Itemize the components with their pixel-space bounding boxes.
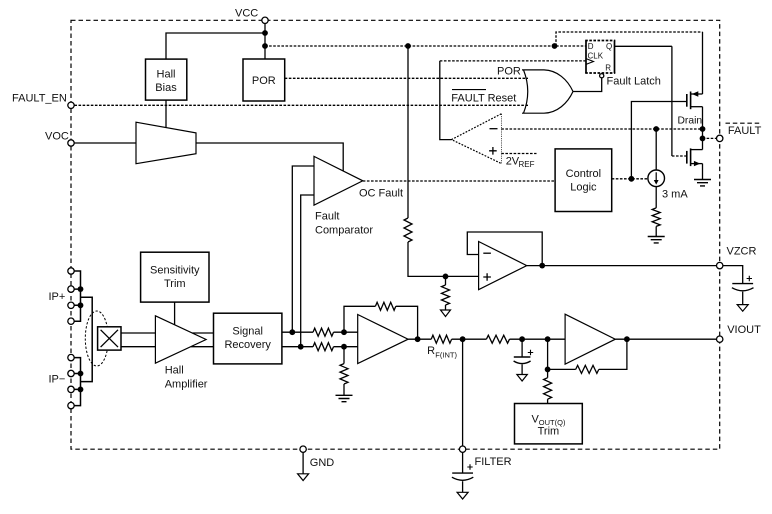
node gain stage output: [415, 336, 421, 342]
svg-text:OC Fault: OC Fault: [359, 188, 403, 200]
svg-text:Bias: Bias: [155, 82, 177, 94]
svg-text:Hall: Hall: [157, 69, 176, 81]
node buffer output: [624, 336, 630, 342]
pin FAULT: [717, 123, 762, 141]
wire Hall Bias to VOC buffer top: [165, 100, 167, 128]
svg-text:3 mA: 3 mA: [662, 189, 688, 201]
Hall element X: [98, 327, 121, 350]
svg-text:Recovery: Recovery: [224, 339, 271, 351]
comparator disable (2VREF): [452, 114, 502, 164]
block Control Logic: [555, 149, 612, 212]
resistor to VOUT(Q) trim: [544, 369, 552, 403]
pin VCC: [235, 7, 268, 23]
ground arrow below FILTER cap: [457, 492, 468, 499]
node VCC-HallBias junction: [262, 30, 268, 36]
svg-text:VCC: VCC: [235, 7, 258, 19]
wire POR output to OR gate (dashed): [285, 77, 528, 79]
ground arrow below internal cap: [517, 375, 527, 382]
pin GND: [300, 446, 334, 469]
svg-text:FAULT: FAULT: [728, 125, 762, 137]
ground arrow below VZCR cap: [737, 305, 748, 312]
svg-text:Logic: Logic: [570, 182, 597, 194]
wire 2VREF stub: [501, 153, 536, 155]
svg-text:FAULT Reset: FAULT Reset: [451, 93, 516, 105]
svg-text:REF: REF: [519, 160, 535, 169]
capacitor internal filter: [514, 339, 534, 374]
wire to FILTER pin: [462, 339, 464, 446]
svg-text:R: R: [427, 345, 435, 357]
wire Hall element outputs: [121, 333, 155, 347]
wire feedback with resistor: [344, 302, 418, 339]
pin IP+ group: [49, 268, 75, 325]
wire VOC buffer output to fault comparator: [196, 143, 343, 172]
wire VZCR output to pin: [527, 265, 717, 267]
label 2VREF: [506, 156, 535, 170]
svg-text:VOC: VOC: [45, 131, 69, 143]
wire Sensitivity Trim to Hall amp: [174, 302, 176, 325]
node feedback-trim junction: [545, 367, 551, 373]
svg-text:Trim: Trim: [164, 278, 186, 290]
svg-text:Amplifier: Amplifier: [165, 378, 208, 390]
node VZCR output junction: [539, 263, 545, 269]
amplifier VOC buffer (trapezoid): [136, 122, 196, 164]
pin VOC: [45, 131, 74, 147]
node control-gate junction: [629, 176, 635, 182]
node FAULT output junction: [700, 136, 706, 142]
wire VCC to PMOS drain: [556, 32, 703, 46]
wire latch Q output (dashed): [615, 45, 672, 47]
current source 3 mA: [648, 129, 688, 201]
node filter tap: [460, 336, 466, 342]
wire CLK line (dashed): [440, 60, 586, 62]
pin FILTER: [459, 446, 511, 468]
transistor Q2 NMOS: [687, 148, 703, 166]
node current-sink junction: [653, 126, 659, 132]
pin FAULT_EN: [12, 93, 74, 109]
wire IP- bus: [74, 358, 83, 406]
op-amp VZCR buffer: [479, 242, 527, 290]
wire FAULT_EN to OR gate (dashed): [74, 104, 528, 106]
wire buffer output to VIOUT: [615, 338, 716, 340]
transistor Q1 PMOS: [678, 91, 703, 126]
svg-text:Fault Latch: Fault Latch: [607, 75, 661, 87]
block VOUT(Q) Trim: [515, 404, 583, 444]
svg-text:Trim: Trim: [538, 426, 560, 438]
svg-text:R: R: [605, 64, 611, 73]
resistor divider lower: [442, 276, 450, 310]
resistor RF(INT): [408, 335, 486, 359]
ground arrow below GND pin: [298, 474, 309, 481]
wire IP+ bus: [74, 271, 83, 321]
wire VCC stub to POR: [264, 24, 266, 59]
wire PMOS source to NMOS drain: [702, 107, 704, 150]
block Hall Bias: [146, 59, 187, 100]
wire FAULT output: [703, 137, 717, 139]
svg-text:IP−: IP−: [49, 374, 66, 386]
block Sensitivity Trim: [141, 252, 209, 302]
IC package boundary: [71, 20, 720, 449]
wire VCC rail (dashed): [265, 45, 586, 47]
wire comparator minus to drain node (dashed): [501, 128, 702, 130]
node VCC-drain-branch junction: [552, 43, 558, 49]
block Signal Recovery: [214, 313, 282, 364]
svg-text:Fault: Fault: [315, 210, 339, 222]
ground below current source resistor: [648, 237, 665, 243]
pin VIOUT: [717, 324, 762, 342]
svg-text:POR: POR: [252, 75, 276, 87]
svg-text:GND: GND: [310, 457, 335, 469]
wire signal path A with resistor: [282, 328, 358, 336]
resistor to ground on plus input: [340, 347, 348, 396]
wire comparator output to latch CLK: [440, 61, 452, 140]
node cap tap: [519, 336, 525, 342]
pin VZCR: [717, 246, 757, 269]
wire NMOS source to ground: [702, 164, 704, 180]
node latch R bubble: [600, 74, 604, 78]
ground below NMOS: [694, 180, 711, 186]
svg-text:CLK: CLK: [588, 51, 604, 60]
svg-text:VIOUT: VIOUT: [727, 324, 761, 336]
svg-text:Drain: Drain: [678, 116, 703, 127]
svg-text:POR: POR: [497, 66, 521, 78]
svg-text:D: D: [588, 42, 594, 51]
resistor buffer feedback: [548, 339, 627, 373]
ground arrow below divider: [441, 310, 451, 317]
capacitor VZCR bypass: [732, 276, 754, 305]
wire primary conductor loop: [81, 297, 93, 381]
node VCC-pullup junction: [405, 43, 411, 49]
wire VZCR external cap lead: [723, 266, 743, 284]
svg-text:Signal: Signal: [232, 326, 263, 338]
wire Hall Bias VCC feed: [166, 33, 265, 59]
flux coupling ellipse: [85, 311, 108, 366]
comparator Fault Comparator: [314, 156, 403, 236]
svg-text:FAULT_EN: FAULT_EN: [12, 93, 67, 105]
wire Control Logic output (dashed): [612, 178, 648, 180]
flip-flop U1 Fault Latch: [585, 41, 661, 88]
wire buffer feedback node: [547, 339, 549, 369]
wire fault comparator input A: [292, 166, 314, 332]
wire OR output to latch R: [573, 78, 602, 92]
gate OR (fault reset): [451, 66, 573, 114]
wire signal path B with resistor: [282, 343, 358, 351]
op-amp main gain stage: [358, 315, 408, 364]
svg-text:F(INT): F(INT): [435, 351, 457, 360]
svg-text:IP+: IP+: [49, 291, 66, 303]
wire OC Fault output to Control Logic (dashed): [363, 180, 555, 182]
wire Hall amp outputs: [191, 333, 214, 347]
node drain-comparator junction: [700, 126, 706, 132]
pin IP- group: [49, 354, 75, 408]
svg-text:VZCR: VZCR: [727, 246, 757, 258]
svg-text:Q: Q: [606, 42, 612, 51]
resistor mid signal: [486, 335, 565, 343]
wire fault comparator input B: [301, 195, 314, 347]
wire VOC to buffer: [74, 142, 136, 144]
svg-text:FILTER: FILTER: [475, 456, 512, 468]
ground below plus-input resistor: [336, 395, 353, 401]
capacitor FILTER external: [452, 453, 473, 493]
wire Q to NMOS gate: [671, 46, 673, 156]
svg-text:Comparator: Comparator: [315, 224, 373, 236]
block POR: [243, 59, 285, 101]
wire control to PMOS gate: [631, 102, 686, 179]
svg-text:Sensitivity: Sensitivity: [150, 265, 200, 277]
wire VZCR feedback loop: [467, 232, 542, 266]
amplifier Hall Amplifier: [155, 316, 207, 391]
node reference divider tap: [443, 274, 449, 280]
wire GND stub: [302, 452, 304, 473]
svg-text:Control: Control: [566, 168, 601, 180]
op-amp output buffer: [565, 314, 615, 364]
svg-text:Hall: Hall: [165, 364, 184, 376]
resistor pull-up on comparator line: [404, 46, 478, 276]
node buffer input: [545, 336, 551, 342]
resistor below current source: [652, 187, 660, 237]
node VCC-rail junction: [262, 43, 268, 49]
